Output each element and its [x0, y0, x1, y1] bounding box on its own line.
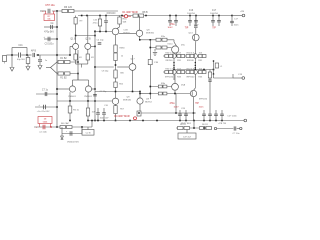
svg-text:R8 B: R8 B [142, 11, 148, 14]
svg-text:R1 B2: R1 B2 [60, 78, 67, 80]
svg-text:C16: C16 [189, 10, 194, 12]
svg-text:R680: R680 [120, 48, 126, 50]
svg-text:R6 CAP: R6 CAP [61, 122, 69, 125]
svg-text:IRF240: IRF240 [166, 60, 174, 62]
svg-text:BD912: BD912 [145, 102, 152, 104]
svg-text:D1 4007 MUR: D1 4007 MUR [122, 11, 137, 14]
svg-text:C17: C17 [212, 10, 217, 12]
svg-text:100n 5kV: 100n 5kV [100, 117, 109, 119]
svg-text:TIP: TIP [185, 28, 189, 30]
svg-text:100n: 100n [234, 25, 240, 27]
svg-text:TIP: TIP [195, 103, 199, 105]
svg-text:IRF240: IRF240 [187, 60, 195, 62]
svg-text:C5? 10u: C5? 10u [45, 4, 55, 7]
svg-text:C8 10p: C8 10p [102, 71, 110, 73]
svg-text:10R: 10R [92, 112, 96, 114]
svg-text:100n: 100n [199, 106, 205, 108]
svg-text:C7 10p: C7 10p [100, 91, 108, 93]
svg-text:100V: 100V [167, 27, 173, 29]
svg-text:(2x 4A): (2x 4A) [39, 131, 46, 134]
svg-text:R30 0.3: R30 0.3 [187, 53, 195, 55]
svg-text:C2? 100n: C2? 100n [227, 116, 237, 118]
svg-text:D4 4007 MUR: D4 4007 MUR [114, 115, 129, 118]
svg-text:100V: 100V [173, 106, 179, 108]
svg-text:2SA: 2SA [181, 84, 186, 87]
svg-text:MJE340: MJE340 [123, 100, 132, 102]
svg-text:40p 5kV: 40p 5kV [17, 59, 26, 61]
svg-text:MJE350: MJE350 [146, 33, 155, 35]
svg-text:AP B: AP B [31, 50, 37, 53]
svg-text:C5 100u: C5 100u [45, 44, 54, 46]
svg-text:1000/50: 1000/50 [210, 13, 219, 15]
svg-text:470u: 470u [169, 24, 175, 26]
svg-text:C7 1u: C7 1u [42, 90, 49, 92]
svg-text:C1B: C1B [123, 30, 128, 32]
svg-text:+Ca 47u 63V: +Ca 47u 63V [37, 111, 50, 113]
svg-text:IRF9240: IRF9240 [107, 13, 117, 15]
svg-text:470u: 470u [169, 103, 175, 105]
svg-text:IRF9240: IRF9240 [199, 99, 208, 101]
svg-text:IRF9240: IRF9240 [186, 76, 195, 78]
svg-text:470u: 470u [93, 23, 99, 25]
svg-text:1N5404 5kV: 1N5404 5kV [67, 142, 80, 144]
svg-text:C4? 4u7: C4? 4u7 [183, 136, 192, 138]
svg-text:2SC: 2SC [181, 45, 186, 47]
svg-text:Q2 B: Q2 B [85, 39, 91, 41]
svg-text:2N5401: 2N5401 [68, 96, 76, 98]
svg-text:C1B: C1B [154, 62, 159, 64]
svg-text:R30 0.3: R30 0.3 [165, 53, 173, 55]
svg-text:C? 10n: C? 10n [232, 133, 240, 135]
svg-text:R32 0.3: R32 0.3 [165, 69, 173, 71]
svg-text:+PB: +PB [240, 11, 245, 13]
svg-text:R1 B2: R1 B2 [60, 58, 67, 60]
svg-text:Q1 B: Q1 B [70, 39, 76, 41]
svg-text:C1b: C1b [18, 45, 23, 47]
svg-text:R6 1R: R6 1R [180, 124, 186, 126]
svg-text:C4 10p: C4 10p [96, 40, 104, 42]
svg-text:R6 120: R6 120 [64, 6, 73, 9]
svg-text:TIP: TIP [212, 27, 216, 29]
svg-text:R6 1R: R6 1R [202, 124, 208, 126]
svg-text:1000/50: 1000/50 [187, 13, 196, 15]
svg-text:K214: K214 [168, 44, 174, 46]
svg-text:R5 1k: R5 1k [73, 110, 80, 112]
svg-text:IRF9240: IRF9240 [165, 76, 174, 78]
svg-text:470p 5kV: 470p 5kV [44, 32, 54, 34]
svg-text:C2 B: C2 B [86, 133, 91, 135]
svg-text:+PB TM: +PB TM [218, 123, 226, 125]
svg-text:2N5401: 2N5401 [84, 96, 92, 98]
